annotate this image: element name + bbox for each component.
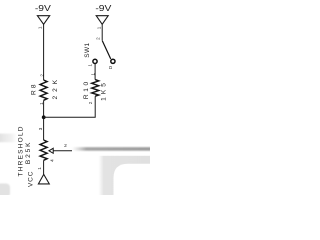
wire supply to R8 [43,24,45,80]
resistor R10 [92,80,99,97]
svg-text:1K5: 1K5 [100,83,107,101]
svg-text:22K: 22K [52,79,59,99]
wiper wire [53,150,72,152]
supply symbol -9V (left) [37,16,49,25]
supply symbol -9V (right) [96,16,108,25]
watermark big letter counter [114,164,152,196]
svg-text:D: D [108,65,113,69]
svg-text:B25K: B25K [25,142,32,164]
svg-text:2: 2 [64,143,67,149]
watermark band left edge [0,134,18,143]
wire pot to VCC [43,160,45,174]
svg-text:2: 2 [39,74,44,77]
svg-text:2: 2 [95,37,100,40]
svg-text:THRESHOLD: THRESHOLD [18,126,25,176]
wire R8 to pot [43,100,45,140]
switch SW1 lever [102,41,110,59]
wire supply to switch [101,24,103,40]
switch contact right [111,59,115,63]
pot wiper arrow [49,148,53,153]
svg-text:-9V: -9V [35,3,51,13]
svg-text:2: 2 [88,101,93,104]
svg-text:SW1: SW1 [84,43,91,58]
svg-text:3: 3 [38,127,43,130]
svg-text:VCC: VCC [27,171,34,187]
svg-text:1: 1 [90,72,95,75]
svg-text:4: 4 [49,159,54,162]
svg-text:1: 1 [88,63,93,66]
watermark horizontal rule [72,147,151,151]
VCC power symbol [38,174,49,184]
svg-text:-9V: -9V [95,3,111,13]
svg-text:1: 1 [97,26,102,29]
svg-text:1: 1 [37,167,42,170]
junction dot [42,115,46,119]
wire switch to R10 [94,64,96,80]
potentiometer body [40,140,47,160]
resistor R8 [40,80,47,100]
switch contact left [93,59,97,63]
svg-text:R10: R10 [83,81,90,99]
svg-text:1: 1 [38,26,43,29]
watermark blob bottom-left corner [0,184,10,198]
wire junction to R10 branch [44,96,95,117]
watermark big letter fill [99,156,152,196]
svg-text:R8: R8 [31,84,38,95]
